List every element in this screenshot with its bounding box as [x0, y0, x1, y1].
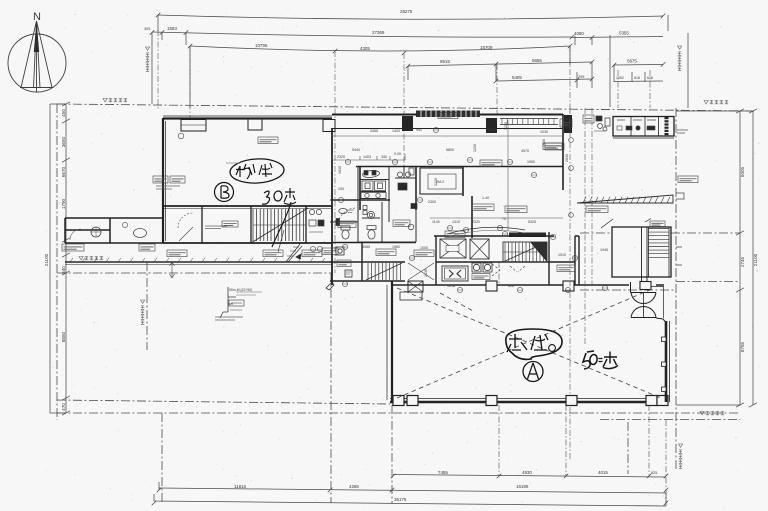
section detail symbol [215, 287, 262, 320]
svg-text:1220: 1220 [434, 178, 438, 186]
svg-text:618: 618 [634, 76, 640, 80]
WC door swing dashed arc [338, 208, 356, 226]
knob circles near strip [310, 246, 322, 251]
middle room fixtures [367, 211, 374, 218]
small circle symbols [338, 127, 607, 292]
svg-text:50m-M (22+50): 50m-M (22+50) [229, 288, 252, 292]
right dimension lines [676, 109, 757, 407]
top right mini dims [612, 62, 666, 82]
svg-text:2320: 2320 [337, 155, 345, 159]
top dimension line 26275 [156, 13, 668, 31]
terrace + exterior stair S4 [601, 219, 671, 289]
svg-text:825: 825 [651, 471, 657, 475]
room B bottom wall [163, 128, 332, 285]
circled B [215, 183, 234, 202]
WC suite left fixtures [339, 208, 347, 213]
core outline walls [330, 114, 612, 285]
top grid dash-dot verticals [158, 30, 650, 273]
svg-text:200: 200 [338, 187, 344, 191]
top dimension line 5405/295 [494, 72, 595, 88]
svg-text:7455: 7455 [438, 470, 448, 475]
svg-text:26275: 26275 [400, 9, 413, 14]
svg-text:16195: 16195 [516, 484, 529, 489]
toilet fixtures suite 1 [336, 168, 417, 239]
svg-text:305: 305 [144, 27, 150, 31]
svg-text:4930: 4930 [522, 470, 532, 475]
room A top wall right segs [612, 284, 664, 286]
top wall dark columns [402, 116, 413, 131]
svg-text:5905: 5905 [740, 166, 745, 177]
svg-text:8850: 8850 [61, 331, 66, 342]
svg-text:1790: 1790 [61, 198, 66, 209]
top dimension line 4080/5355 [572, 35, 663, 45]
svg-text:1310: 1310 [452, 220, 460, 224]
svg-text:4080: 4080 [574, 31, 584, 36]
svg-text:1-40: 1-40 [482, 196, 489, 200]
svg-text:8765: 8765 [740, 341, 745, 352]
site fence wall [65, 258, 332, 265]
svg-text:5355: 5355 [619, 31, 629, 36]
svg-text:35175: 35175 [394, 497, 407, 502]
handwritten 50 tsubo [583, 351, 618, 369]
elevator arrow box [442, 266, 468, 281]
svg-text:1945: 1945 [600, 248, 608, 252]
svg-text:8515: 8515 [440, 59, 450, 64]
equipment room top right [613, 117, 674, 139]
circled A [523, 362, 543, 382]
handwritten bukken circled [229, 158, 284, 185]
svg-text:3455: 3455 [370, 129, 378, 133]
boundary labels [103, 98, 127, 102]
svg-text:450: 450 [61, 109, 66, 117]
svg-text:1030: 1030 [540, 130, 548, 134]
handwritten 30 tsubo [262, 188, 296, 247]
svg-text:1818: 1818 [447, 284, 455, 288]
svg-text:4305: 4305 [360, 46, 370, 51]
right area dash-dot verticals [570, 108, 592, 460]
svg-text:2745: 2745 [740, 256, 745, 267]
svg-text:1140: 1140 [432, 220, 440, 224]
bottom dimension row 1 [391, 262, 669, 503]
toilet fixtures suite right [398, 183, 407, 190]
svg-text:4970: 4970 [521, 149, 529, 153]
room A left wall [387, 281, 668, 402]
svg-text:15709: 15709 [480, 45, 493, 50]
top dimension line 10795/4305/15709 [188, 44, 573, 108]
marks left of equipment room [594, 116, 610, 131]
svg-text:470: 470 [61, 403, 66, 411]
building top wall band center with window strip [332, 114, 563, 116]
corner flag [326, 282, 334, 290]
svg-text:1583: 1583 [167, 26, 177, 31]
svg-text:840: 840 [61, 266, 66, 274]
left annex rooms [65, 218, 163, 243]
svg-text:5655: 5655 [532, 58, 542, 63]
svg-text:6670: 6670 [61, 166, 66, 177]
svg-text:1052: 1052 [616, 76, 624, 80]
ticks right of terrace [676, 193, 684, 265]
left dimension lines [50, 102, 70, 415]
svg-text:1403: 1403 [363, 155, 371, 159]
door arc strip room [178, 213, 193, 228]
svg-text:1010: 1010 [558, 253, 566, 257]
svg-text:608: 608 [508, 284, 514, 288]
boxed labels core [472, 204, 494, 211]
svg-text:1000: 1000 [420, 246, 428, 250]
stair S2 [503, 242, 547, 262]
bench detail room 332-372 243-262 [336, 247, 352, 277]
storefront right wall [662, 321, 670, 402]
svg-text:11815: 11815 [234, 484, 246, 489]
dark wall seg above stair [509, 233, 546, 238]
svg-text:4265: 4265 [349, 484, 359, 489]
svg-text:3650: 3650 [61, 136, 66, 147]
svg-text:4065: 4065 [362, 245, 370, 249]
window mullions right strip [502, 119, 554, 125]
building top wall band left (room B) [163, 115, 563, 132]
stair S1 [251, 208, 308, 252]
boxed labels strip [167, 250, 187, 257]
bottom dimension row 3 [152, 493, 669, 506]
svg-text:0.00: 0.00 [394, 152, 401, 156]
right room fixtures [411, 204, 417, 209]
svg-text:2130: 2130 [424, 269, 428, 277]
svg-text:4015: 4015 [598, 470, 608, 475]
svg-text:295: 295 [578, 75, 584, 79]
top dimension line 27369 [150, 30, 688, 108]
svg-text:340: 340 [381, 155, 387, 159]
top dimension line 8515/5655 [406, 60, 595, 88]
svg-text:5000: 5000 [487, 128, 495, 132]
room A top columns [486, 281, 574, 291]
bottom dimension row 2 [157, 482, 669, 493]
toilet partitions [330, 166, 416, 243]
elevator EV2 [470, 239, 489, 259]
elevator EV1 [440, 239, 489, 259]
left wall [163, 118, 166, 243]
stair S3 [366, 263, 402, 280]
ramp wedge [577, 195, 673, 203]
B strip right room fixtures [309, 209, 324, 232]
svg-text:27369: 27369 [372, 30, 385, 35]
svg-text:1200: 1200 [504, 122, 508, 130]
svg-text:75: 75 [502, 217, 506, 221]
handwritten zanken circled [506, 329, 562, 359]
svg-text:2630: 2630 [565, 154, 569, 162]
svg-text:5675: 5675 [627, 59, 637, 64]
mini ramp symbol at fence [286, 244, 302, 262]
north arrow compass [8, 21, 66, 92]
svg-text:1960: 1960 [392, 245, 400, 249]
fan units [472, 263, 492, 272]
svg-text:5800: 5800 [446, 148, 454, 152]
arrow tick below fence [170, 262, 175, 278]
meeting room [420, 168, 463, 194]
vestibule [400, 281, 423, 300]
svg-text:21100: 21100 [753, 253, 758, 266]
svg-text:2320: 2320 [472, 220, 480, 224]
svg-text:N: N [33, 11, 41, 23]
svg-text:2300: 2300 [428, 200, 436, 204]
svg-text:1200: 1200 [473, 144, 477, 152]
bottom wall columns [393, 396, 668, 406]
svg-text:1950: 1950 [527, 160, 535, 164]
svg-text:10795: 10795 [255, 43, 268, 48]
svg-text:5405: 5405 [512, 75, 522, 80]
room A bottom wall [390, 401, 668, 403]
svg-text:9440: 9440 [352, 148, 360, 152]
dark square column [665, 117, 669, 135]
room B right wall [331, 128, 333, 285]
core mid walls [362, 232, 579, 285]
svg-text:21100: 21100 [44, 253, 49, 266]
svg-text:1630: 1630 [338, 166, 342, 174]
site boundary dash-dot lines [57, 104, 755, 503]
room A dashed X [397, 288, 661, 398]
corridor arc [447, 227, 525, 234]
svg-text:1403: 1403 [392, 129, 400, 133]
svg-text:940: 940 [416, 128, 422, 132]
svg-text:5325: 5325 [528, 220, 536, 224]
door X marks [408, 263, 525, 280]
revolving door [631, 282, 666, 323]
dim ticks small rows [332, 136, 563, 218]
dark louver strip [416, 111, 480, 118]
